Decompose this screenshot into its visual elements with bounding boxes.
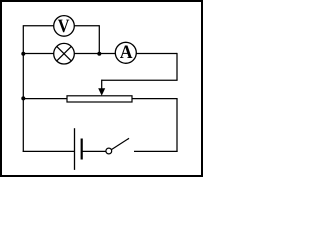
wire: wiper return horizontal xyxy=(102,79,178,81)
wire: wiper vertical lead xyxy=(101,80,103,89)
wire: right vertical to bottom xyxy=(176,99,178,152)
voltmeter V1 circle xyxy=(54,16,75,37)
switch blade xyxy=(111,138,129,149)
wire: battery to switch xyxy=(82,150,106,152)
ammeter A1 label xyxy=(120,46,132,59)
lamp L1 circle xyxy=(54,43,75,64)
wire: ammeter loop right vertical xyxy=(176,53,178,80)
wire: voltmeter loop right vertical xyxy=(98,25,100,54)
wire: switch right to corner xyxy=(134,150,178,152)
switch pivot circle xyxy=(106,148,112,154)
ammeter A1 circle xyxy=(115,42,136,63)
voltmeter V1 label xyxy=(58,20,69,33)
resistor rheostat body xyxy=(67,96,132,102)
wire: left vertical main xyxy=(22,25,24,152)
wire: top wire to voltmeter loop xyxy=(23,25,99,27)
battery cell short plate xyxy=(81,139,83,160)
node junction dot left upper xyxy=(21,52,25,56)
wire: lamp-ammeter horizontal xyxy=(23,53,177,55)
wire: rheostat left lead xyxy=(23,98,67,100)
border frame xyxy=(1,1,202,176)
node junction dot right of lamp xyxy=(97,52,101,56)
battery cell long plate xyxy=(74,128,76,170)
wire: rheostat right lead xyxy=(132,98,178,100)
node junction dot left lower xyxy=(21,96,25,100)
lamp L1 cross lines xyxy=(57,46,72,61)
arrowhead of rheostat wiper xyxy=(98,88,105,96)
wire: bottom left horizontal xyxy=(23,150,75,152)
